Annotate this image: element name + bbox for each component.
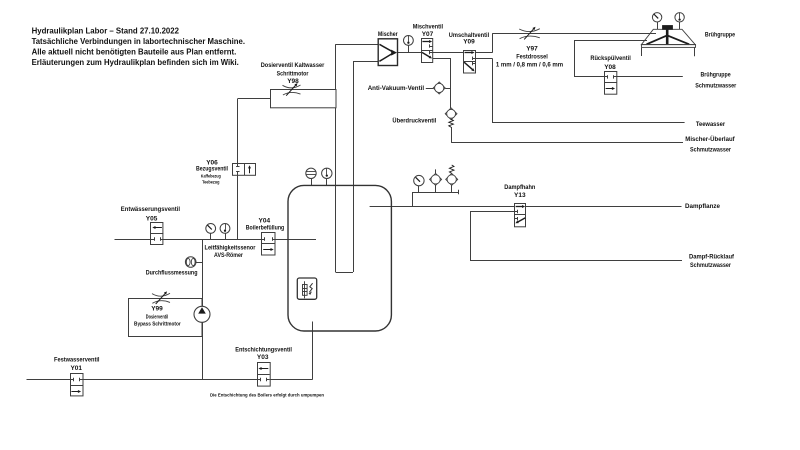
wire riser to brew line bbox=[492, 33, 494, 52]
svg-text:Überdruckventil: Überdruckventil bbox=[392, 116, 436, 125]
wire mischer gauge stem bbox=[408, 45, 410, 52]
pressure gauge on main line bbox=[206, 224, 216, 234]
wire tube bottom bbox=[336, 272, 354, 274]
flow meter Durchflussmessung bbox=[185, 257, 196, 268]
wire Dampf-Ruecklauf line bbox=[470, 260, 682, 262]
wire brewgroup feed y41 bbox=[574, 40, 647, 42]
svg-text:Alle aktuell nicht benötigten: Alle aktuell nicht benötigten Bauteile a… bbox=[32, 46, 237, 56]
svg-text:Hydraulikplan Labor – Stand 27: Hydraulikplan Labor – Stand 27.10.2022 bbox=[32, 25, 180, 35]
svg-text:Teebezug: Teebezug bbox=[202, 179, 220, 184]
svg-text:Leitfähigkeitssenor: Leitfähigkeitssenor bbox=[205, 244, 256, 251]
brew group Bruehgruppe bbox=[657, 22, 659, 29]
valve Y03 Entschichtungsventil bbox=[258, 363, 271, 387]
wire boiler gauge stem 1 bbox=[311, 179, 313, 186]
safety valve steam bbox=[449, 165, 454, 173]
svg-text:AVS-Römer: AVS-Römer bbox=[214, 252, 243, 259]
valve Y05 Entwaesserungsventil bbox=[151, 223, 163, 245]
check valve steam bbox=[435, 169, 437, 173]
svg-text:1 mm / 0,8 mm / 0,6 mm: 1 mm / 0,8 mm / 0,6 mm bbox=[496, 62, 563, 69]
svg-text:Festwasserventil: Festwasserventil bbox=[54, 356, 100, 363]
box Y98 Dosierventil Kaltwasser bbox=[271, 90, 337, 108]
svg-text:Dosierventil: Dosierventil bbox=[146, 315, 169, 321]
svg-text:Schmutzwasser: Schmutzwasser bbox=[695, 83, 736, 90]
svg-text:Y01: Y01 bbox=[70, 365, 82, 372]
thermometer on boiler bbox=[322, 168, 332, 178]
valve Y09 Umschaltventil bbox=[464, 51, 476, 74]
svg-text:Die Entschichtung des Boilers: Die Entschichtung des Boilers erfolgt du… bbox=[210, 392, 324, 398]
wire brew-water line y33.4 bbox=[492, 33, 656, 35]
wire steam return upper bbox=[470, 211, 515, 213]
svg-text:Rückspülventil: Rückspülventil bbox=[590, 55, 631, 62]
wire gauge stem 2 bbox=[225, 233, 227, 239]
svg-text:Bezugsventil: Bezugsventil bbox=[196, 165, 228, 172]
svg-text:Durchflussmessung: Durchflussmessung bbox=[146, 270, 198, 277]
wire manifold stem gauge bbox=[418, 186, 420, 192]
svg-text:Mischer-Überlauf: Mischer-Überlauf bbox=[685, 134, 735, 143]
svg-text:Schmutzwasser: Schmutzwasser bbox=[690, 147, 731, 154]
level sensor on boiler bbox=[306, 168, 316, 178]
svg-text:Schmutzwasser: Schmutzwasser bbox=[690, 262, 731, 269]
svg-text:Festdrossel: Festdrossel bbox=[516, 53, 548, 60]
svg-text:Teewasser: Teewasser bbox=[696, 121, 726, 128]
wire Bruehgruppe Schmutzwasser line bbox=[617, 76, 683, 78]
svg-text:Y03: Y03 bbox=[257, 354, 269, 361]
svg-text:Brühgruppe: Brühgruppe bbox=[701, 71, 732, 78]
svg-text:Y13: Y13 bbox=[514, 192, 526, 199]
svg-text:Y07: Y07 bbox=[422, 31, 434, 38]
pump bbox=[194, 306, 210, 322]
wire to Mischer top input bbox=[336, 44, 380, 46]
svg-text:Y05: Y05 bbox=[146, 215, 158, 222]
thermometer at mixer outlet bbox=[404, 36, 414, 46]
svg-text:Mischventil: Mischventil bbox=[413, 23, 444, 30]
wire bottom line up into boiler bbox=[312, 322, 314, 380]
wire manifold riser bbox=[412, 192, 414, 206]
wire tube left wall x335.5 bbox=[335, 44, 337, 272]
svg-text:Kaffebezug: Kaffebezug bbox=[201, 174, 221, 179]
svg-text:Dampflanze: Dampflanze bbox=[685, 203, 720, 210]
wire Y06 branch to Y98 box bbox=[238, 98, 270, 100]
svg-text:Dosierventil Kaltwasser: Dosierventil Kaltwasser bbox=[261, 62, 325, 69]
valve Y01 Festwasserventil bbox=[71, 374, 84, 396]
wire to Mischer lower input bbox=[353, 61, 380, 63]
valve Y04 Boilerbefuellung bbox=[262, 233, 276, 256]
wire Y09 upper output bbox=[476, 52, 493, 54]
pressure gauge steam bbox=[414, 175, 424, 185]
svg-text:Tatsächliche Verbindungen in l: Tatsächliche Verbindungen in labortechni… bbox=[32, 36, 245, 46]
wire teewasser drop x492 bbox=[492, 58, 494, 123]
box Y99 Dosierventil Bypass bbox=[129, 299, 203, 337]
svg-text:Entwässerungsventil: Entwässerungsventil bbox=[121, 206, 180, 213]
wire steam line y206.3 bbox=[370, 206, 682, 208]
throttle Y98 bbox=[283, 85, 301, 88]
svg-text:Bypass Schrittmotor: Bypass Schrittmotor bbox=[134, 322, 181, 328]
wire manifold stem check bbox=[435, 185, 437, 192]
svg-text:Y08: Y08 bbox=[604, 64, 616, 71]
wire brewgroup feed vertical x574 bbox=[574, 41, 576, 77]
wire manifold end tick bbox=[458, 190, 460, 195]
boiler tank bbox=[288, 185, 391, 331]
wire Teewasser line bbox=[492, 122, 685, 124]
throttle Y99 bbox=[152, 293, 170, 296]
svg-text:Entschichtungsventil: Entschichtungsventil bbox=[235, 347, 292, 354]
svg-text:Brühgruppe: Brühgruppe bbox=[705, 31, 736, 38]
fixed restrictor Y97 bbox=[519, 29, 540, 32]
svg-text:Erläuterungen zum Hydraulikpla: Erläuterungen zum Hydraulikplan befinden… bbox=[32, 57, 239, 67]
wire manifold header bbox=[412, 192, 458, 194]
svg-text:Y98: Y98 bbox=[287, 78, 299, 85]
wire main riser x202 down to bottom line bbox=[202, 239, 204, 380]
wire below relief valve bbox=[451, 127, 453, 142]
wire main supply line y239 bbox=[115, 239, 317, 241]
svg-text:Anti-Vakuum-Ventil: Anti-Vakuum-Ventil bbox=[368, 85, 425, 92]
svg-text:Y97: Y97 bbox=[526, 46, 538, 53]
svg-text:Boilerbefüllung: Boilerbefüllung bbox=[246, 224, 285, 231]
valve Y06 Bezugsventil (horizontal) bbox=[233, 164, 256, 176]
wire bottom fixed-water line y379.5 bbox=[27, 379, 313, 381]
wire Y06 branch vertical x237.8 bbox=[237, 99, 239, 240]
svg-text:Dampfhahn: Dampfhahn bbox=[504, 184, 535, 191]
wire Y09 lower output bbox=[476, 58, 493, 60]
wire Y07 overflow output bbox=[433, 58, 451, 60]
svg-text:Schrittmotor: Schrittmotor bbox=[277, 71, 309, 78]
valve Y08 Rueckspuelventil bbox=[605, 72, 617, 95]
wire Mischer output bbox=[396, 52, 421, 54]
svg-text:Y99: Y99 bbox=[151, 306, 163, 313]
thermometer on main line bbox=[220, 224, 230, 234]
wire Y07 to Y09 bbox=[433, 52, 464, 54]
wire flowmeter connector bbox=[196, 262, 202, 264]
svg-text:Mischer: Mischer bbox=[378, 31, 398, 38]
wire gauge stem 1 bbox=[210, 233, 212, 239]
wire boiler gauge stem 2 bbox=[326, 179, 328, 186]
valve Y07 Mischventil bbox=[422, 39, 433, 63]
svg-text:Dampf-Rücklauf: Dampf-Rücklauf bbox=[689, 253, 735, 260]
mixer Mischer bbox=[378, 39, 397, 66]
wire to Y08 bbox=[574, 76, 604, 78]
wire manifold stem safety bbox=[451, 185, 453, 192]
svg-text:Y09: Y09 bbox=[463, 39, 475, 46]
anti-vacuum valve bbox=[426, 88, 433, 90]
title text block bbox=[32, 25, 245, 67]
wire tube right wall x353 bbox=[353, 61, 355, 272]
wire steam return drop x470 bbox=[470, 212, 472, 261]
relief valve Ueberdruckventil bbox=[445, 108, 457, 120]
wire overflow drop x450.9 bbox=[450, 58, 452, 108]
wire Mischer-Ueberlauf line bbox=[451, 142, 683, 144]
boiler heating element bbox=[297, 278, 316, 299]
valve Y13 Dampfhahn bbox=[515, 204, 526, 227]
